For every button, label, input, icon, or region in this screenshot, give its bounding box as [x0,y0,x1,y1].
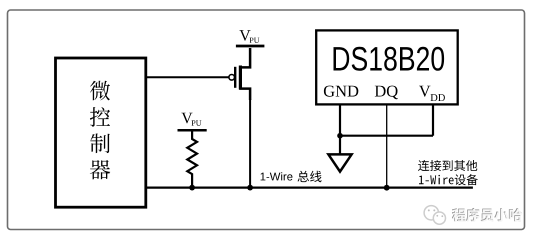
power rail VPU (top) [236,30,265,46]
junction DQ/bus [384,185,390,191]
junction R1/bus [189,185,195,191]
watermark text 程序员小哈 [452,208,523,222]
resistor R1 (pull-up) [187,130,197,187]
wire GND pin [339,104,341,153]
pin label DQ [375,86,398,100]
wire GND-VDD tie [340,135,433,137]
junction GND/VDD tie [337,133,343,139]
ground [328,154,351,171]
pin label VDD [419,86,445,101]
net label 连接到其他 1-Wire设备 [418,160,478,185]
transistor Q1 (P-channel MOSFET) [229,48,250,100]
watermark logo [424,206,445,225]
wire Q1 drain to bus [249,99,251,188]
wire VDD pin [432,104,434,135]
microcontroller block U1 (微控制器) [56,58,146,207]
power rail VPU (pull-up) [178,113,207,131]
DS18B20 block U2 [316,30,458,104]
pin label GND [324,86,358,97]
wire DQ pin to bus [386,104,388,187]
junction Q1 drain/bus [247,185,253,191]
wire 1-Wire bus [146,187,473,189]
wire MCU to Q1 gate [146,76,229,78]
net label 1-Wire 总线 [261,171,322,183]
